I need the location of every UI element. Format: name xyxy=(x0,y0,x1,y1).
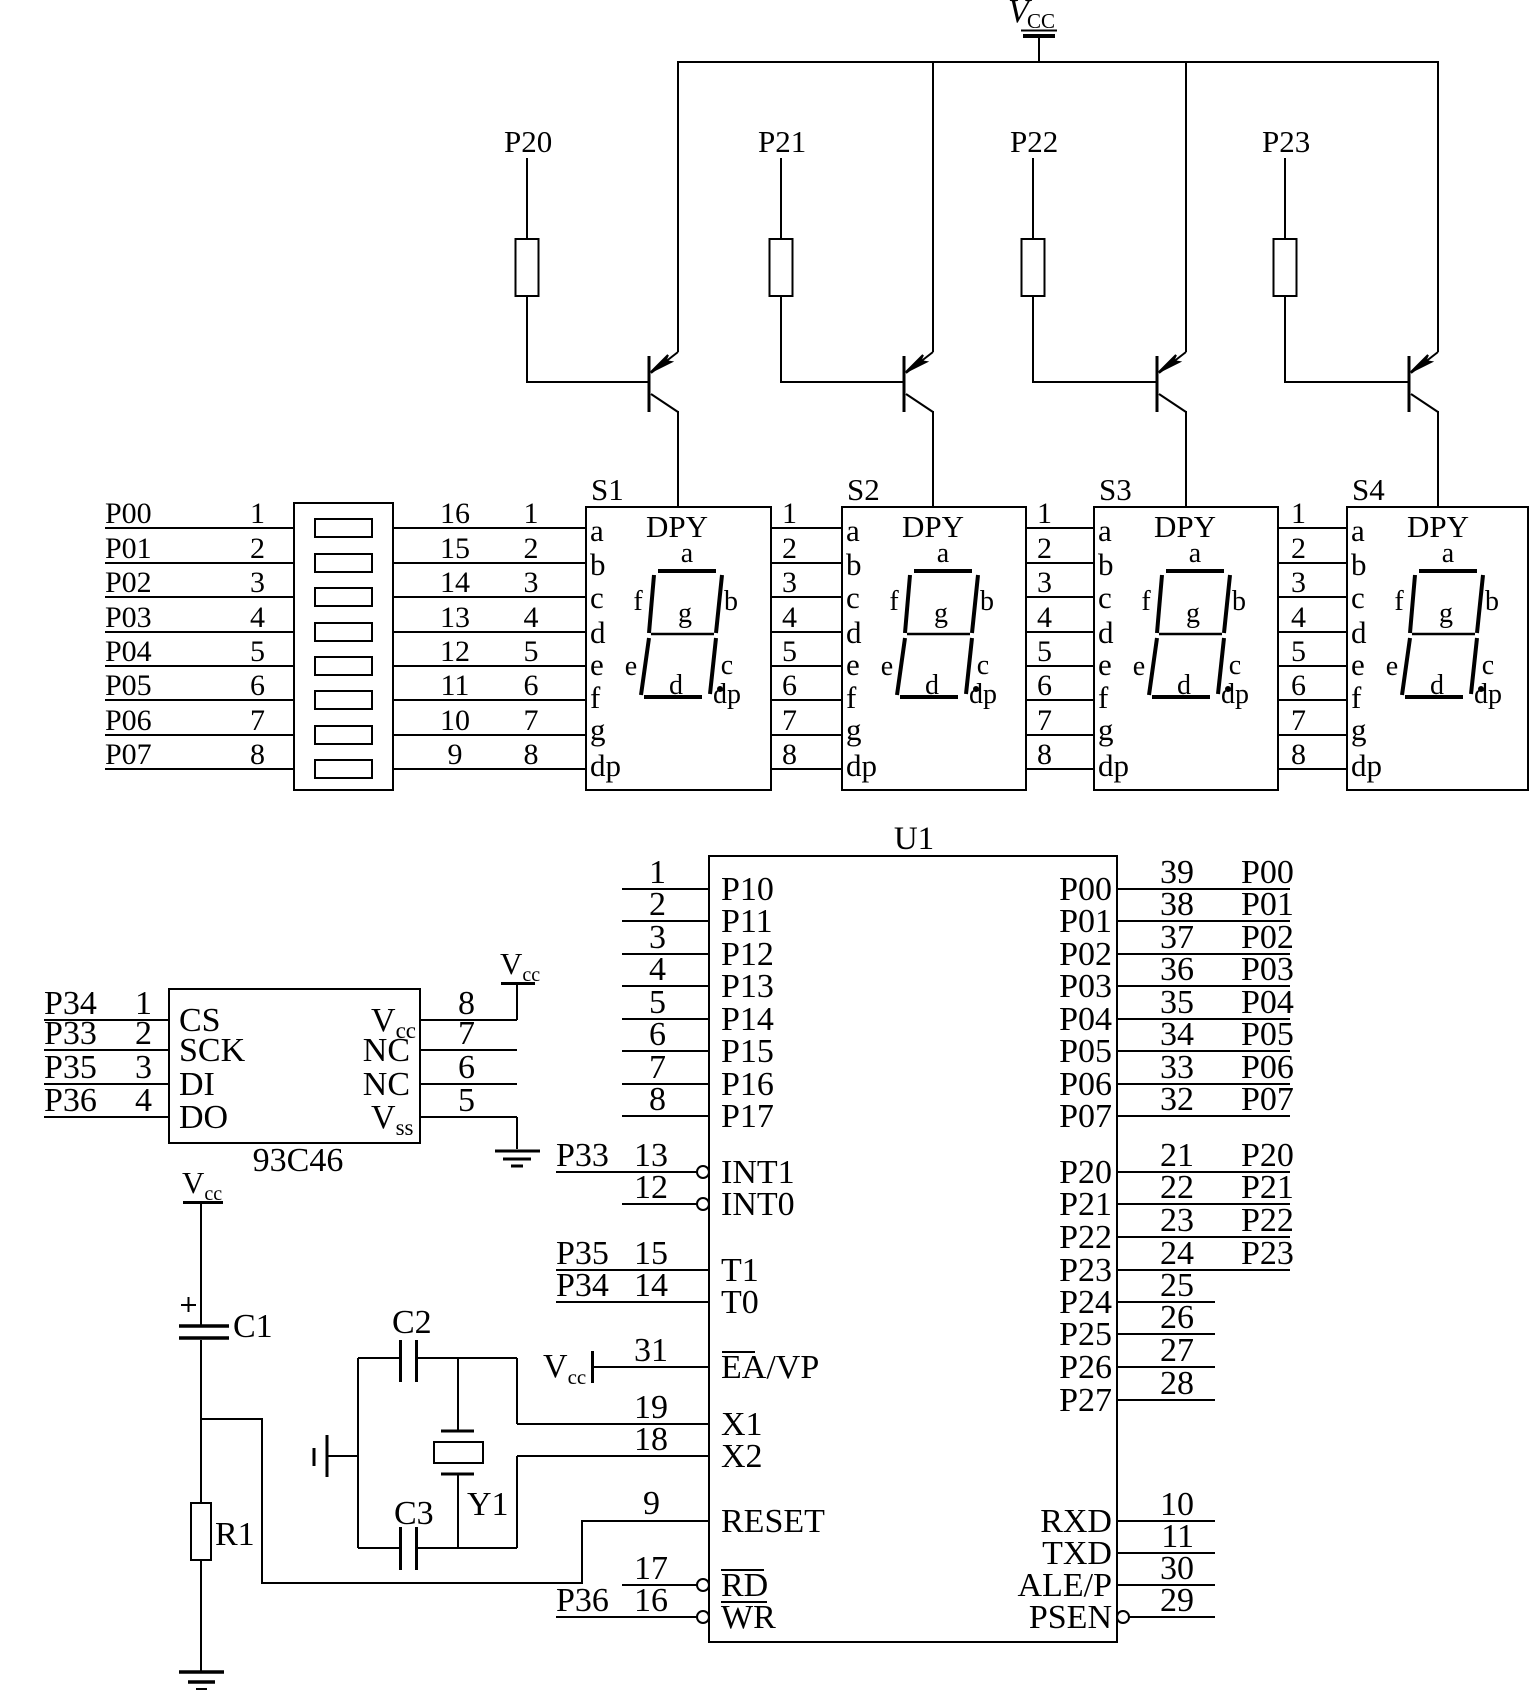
svg-text:DPY: DPY xyxy=(902,509,964,544)
svg-text:8: 8 xyxy=(1037,738,1052,771)
wire P01 to RP1 pin 2 xyxy=(105,562,294,564)
wire Q3 collector to S3 xyxy=(1185,411,1187,508)
svg-text:P22: P22 xyxy=(1059,1219,1112,1256)
svg-text:P25: P25 xyxy=(1059,1316,1112,1353)
svg-text:4: 4 xyxy=(1037,601,1052,634)
U1 pin 28 P27 xyxy=(1059,1365,1215,1419)
wire RP1 pin 9 to S1 pin 8 xyxy=(393,768,586,770)
svg-text:9: 9 xyxy=(448,738,463,771)
wire Q2 collector to S2 xyxy=(932,411,934,508)
svg-text:INT0: INT0 xyxy=(721,1186,795,1223)
svg-text:4: 4 xyxy=(649,951,666,988)
7-seg digit drawing S4 xyxy=(1386,538,1502,710)
svg-text:P07: P07 xyxy=(105,738,152,771)
U1 pin 25 P24 xyxy=(1059,1267,1215,1321)
svg-text:P21: P21 xyxy=(1059,1186,1112,1223)
svg-text:P11: P11 xyxy=(721,903,773,940)
svg-text:4: 4 xyxy=(135,1082,152,1119)
wire P00 to RP1 pin 1 xyxy=(105,527,294,529)
pin numbers 1-8 (S4) xyxy=(1291,497,1306,771)
wire P06 to RP1 pin 7 xyxy=(105,734,294,736)
svg-text:C1: C1 xyxy=(233,1308,273,1345)
resistor RP1 element 5 xyxy=(315,657,372,675)
7-seg digit drawing S3 xyxy=(1133,538,1249,710)
U2 pin 6 NC xyxy=(363,1049,517,1103)
U1 pin 1 P10 xyxy=(622,854,774,908)
svg-text:4: 4 xyxy=(1291,601,1306,634)
svg-text:6: 6 xyxy=(649,1016,666,1053)
svg-text:P01: P01 xyxy=(1059,903,1112,940)
svg-text:5: 5 xyxy=(1037,635,1052,668)
U1 pin 12 INT0 xyxy=(622,1169,795,1223)
svg-text:6: 6 xyxy=(250,669,265,702)
wire Vss to ground xyxy=(516,1117,518,1149)
svg-text:93C46: 93C46 xyxy=(253,1142,344,1179)
wire oscillator left (ground net) xyxy=(357,1358,359,1548)
U1 pin 36 P03 (node P03) xyxy=(1059,951,1294,1005)
svg-text:3: 3 xyxy=(524,566,539,599)
U1 pin 15 T1 (node P35) xyxy=(556,1235,759,1289)
U2 pin 7 NC xyxy=(363,1015,517,1069)
wire RP1 pin 14 to S1 pin 3 xyxy=(393,596,586,598)
wire P04 to RP1 pin 5 xyxy=(105,665,294,667)
svg-text:P33: P33 xyxy=(44,1015,97,1052)
U1 pin 33 P06 (node P06) xyxy=(1059,1049,1294,1103)
svg-text:NC: NC xyxy=(363,1032,410,1069)
svg-text:9: 9 xyxy=(643,1485,660,1522)
svg-text:3: 3 xyxy=(782,566,797,599)
resistor RP1 element 6 xyxy=(315,691,372,709)
U1 pin 13 INT1 (node P33) xyxy=(556,1137,795,1191)
U1 pin 37 P02 (node P02) xyxy=(1059,919,1294,973)
wire C1 to R1 xyxy=(200,1340,202,1503)
svg-text:S1: S1 xyxy=(591,472,624,507)
svg-text:P01: P01 xyxy=(105,532,152,565)
U1 pin 39 P00 (node P00) xyxy=(1059,854,1294,908)
svg-text:P36: P36 xyxy=(44,1082,97,1119)
wire RP1 pin 11 to S1 pin 6 xyxy=(393,699,586,701)
svg-text:P05: P05 xyxy=(1241,1016,1294,1053)
svg-text:T0: T0 xyxy=(721,1284,759,1321)
svg-text:36: 36 xyxy=(1160,951,1194,988)
svg-text:4: 4 xyxy=(250,601,265,634)
svg-text:WR: WR xyxy=(721,1599,776,1636)
svg-text:2: 2 xyxy=(135,1015,152,1052)
capacitor C2 xyxy=(392,1304,432,1382)
svg-text:P22: P22 xyxy=(1241,1202,1294,1239)
svg-text:P03: P03 xyxy=(105,601,152,634)
svg-text:31: 31 xyxy=(634,1332,668,1369)
svg-text:P33: P33 xyxy=(556,1137,609,1174)
svg-text:PSEN: PSEN xyxy=(1029,1599,1112,1636)
svg-text:2: 2 xyxy=(250,532,265,565)
U1 pin 38 P01 (node P01) xyxy=(1059,886,1294,940)
svg-text:22: 22 xyxy=(1160,1169,1194,1206)
U1 pin 21 P20 (node P20) xyxy=(1059,1137,1294,1191)
svg-text:13: 13 xyxy=(440,601,470,634)
U1 pin 32 P07 (node P07) xyxy=(1059,1081,1294,1135)
wire RP1 pin 16 to S1 pin 1 xyxy=(393,527,586,529)
wire segment bus S1 to S2 xyxy=(771,528,842,769)
svg-text:10: 10 xyxy=(440,704,470,737)
svg-text:2: 2 xyxy=(524,532,539,565)
ground (93C46 Vss) xyxy=(495,1151,540,1166)
U1 pin 26 P25 xyxy=(1059,1299,1215,1353)
svg-text:P21: P21 xyxy=(1241,1169,1294,1206)
svg-text:Y1: Y1 xyxy=(467,1486,509,1523)
svg-text:RESET: RESET xyxy=(721,1503,825,1540)
IC U2 93C46 EEPROM xyxy=(169,989,420,1143)
U2 pin 5 Vss xyxy=(371,1082,517,1140)
svg-text:P03: P03 xyxy=(1241,951,1294,988)
svg-text:7: 7 xyxy=(1037,704,1052,737)
svg-text:34: 34 xyxy=(1160,1016,1194,1053)
wire resistor to Q3 base xyxy=(1033,296,1157,382)
U2 pin 1 CS (node P34) xyxy=(44,985,221,1039)
svg-text:P06: P06 xyxy=(105,704,152,737)
resistor RP21 base resistor xyxy=(770,239,793,296)
wire P21 to base resistor xyxy=(780,158,782,239)
U1 pin 27 P26 xyxy=(1059,1332,1215,1386)
svg-text:DPY: DPY xyxy=(1154,509,1216,544)
svg-text:5: 5 xyxy=(1291,635,1306,668)
svg-text:6: 6 xyxy=(782,669,797,702)
wire oscillator bottom (C3 / Y1 / X2 net) xyxy=(358,1456,517,1548)
wire RP1 pin 10 to S1 pin 7 xyxy=(393,734,586,736)
U1 pin 35 P04 (node P04) xyxy=(1059,984,1294,1038)
svg-text:P21: P21 xyxy=(758,124,806,159)
svg-text:P22: P22 xyxy=(1010,124,1058,159)
wire VCC rail xyxy=(677,61,1439,63)
svg-text:5: 5 xyxy=(458,1082,475,1119)
U1 pin 16 WR (node P36) xyxy=(556,1582,776,1636)
wire VCC to Q4 emitter xyxy=(1437,62,1439,352)
U1 pin 29 PSEN xyxy=(1029,1582,1215,1636)
capacitor C3 xyxy=(394,1495,434,1570)
pin letters a-dp S3 xyxy=(1098,513,1129,783)
ground (R1) xyxy=(179,1672,224,1690)
U1 pin 5 P14 xyxy=(622,984,774,1038)
resistor RP1 element 3 xyxy=(315,588,372,606)
resistor RP1 element 2 xyxy=(315,554,372,572)
transistor Q1 (PNP, drives S1) xyxy=(649,352,678,412)
wire RP1 pin 13 to S1 pin 4 xyxy=(393,631,586,633)
resistor R1 xyxy=(191,1503,255,1560)
svg-text:CC: CC xyxy=(1027,9,1055,33)
U1 pin 7 P16 xyxy=(622,1049,774,1103)
svg-text:NC: NC xyxy=(363,1066,410,1103)
svg-text:P34: P34 xyxy=(556,1267,609,1304)
svg-text:P26: P26 xyxy=(1059,1349,1112,1386)
transistor Q3 (PNP, drives S3) xyxy=(1157,352,1186,412)
pin letters a-dp S2 xyxy=(846,513,877,783)
svg-text:1: 1 xyxy=(1037,497,1052,530)
U1 pin 4 P13 xyxy=(622,951,774,1005)
wire P20 to base resistor xyxy=(526,158,528,239)
wire P23 to base resistor xyxy=(1284,158,1286,239)
svg-text:8: 8 xyxy=(782,738,797,771)
power Vcc (reset circuit) xyxy=(182,1165,223,1325)
U1 pin 34 P05 (node P05) xyxy=(1059,1016,1294,1070)
U1 pin 9 RESET xyxy=(582,1485,825,1540)
U2 pin 3 DI (node P35) xyxy=(44,1049,215,1103)
U1 pin 8 P17 xyxy=(622,1081,774,1135)
svg-text:P01: P01 xyxy=(1241,886,1294,923)
svg-text:1: 1 xyxy=(1291,497,1306,530)
IC U1 (8051 MCU) xyxy=(709,856,1117,1642)
svg-text:3: 3 xyxy=(1291,566,1306,599)
svg-text:S2: S2 xyxy=(847,472,880,507)
svg-text:P07: P07 xyxy=(1241,1081,1294,1118)
7-seg digit drawing S1 xyxy=(625,538,741,710)
svg-text:6: 6 xyxy=(458,1049,475,1086)
svg-text:7: 7 xyxy=(782,704,797,737)
svg-text:EA/VP: EA/VP xyxy=(721,1349,819,1386)
svg-text:4: 4 xyxy=(782,601,797,634)
svg-text:32: 32 xyxy=(1160,1081,1194,1118)
wire R1 to ground xyxy=(200,1560,202,1671)
svg-text:R1: R1 xyxy=(215,1516,255,1553)
wire C1/R1 junction to RESET xyxy=(201,1419,709,1583)
svg-text:12: 12 xyxy=(634,1169,668,1206)
wire resistor to Q2 base xyxy=(781,296,904,382)
svg-text:S3: S3 xyxy=(1099,472,1132,507)
resistor network RP1 xyxy=(294,503,393,790)
svg-text:3: 3 xyxy=(1037,566,1052,599)
svg-text:P05: P05 xyxy=(105,669,152,702)
wire segment bus S3 to S4 xyxy=(1278,528,1347,769)
svg-text:P35: P35 xyxy=(44,1049,97,1086)
svg-text:P23: P23 xyxy=(1262,124,1310,159)
U1 pin 23 P22 (node P22) xyxy=(1059,1202,1294,1256)
svg-text:29: 29 xyxy=(1160,1582,1194,1619)
resistor RP1 element 4 xyxy=(315,623,372,641)
ground (oscillator) xyxy=(314,1435,358,1477)
svg-text:15: 15 xyxy=(440,532,470,565)
wire P07 to RP1 pin 8 xyxy=(105,768,294,770)
U1 pin 6 P15 xyxy=(622,1016,774,1070)
power VCC xyxy=(1008,0,1057,62)
U2 pin 4 DO (node P36) xyxy=(44,1082,228,1136)
svg-text:SCK: SCK xyxy=(179,1032,246,1069)
svg-text:C2: C2 xyxy=(392,1304,432,1341)
svg-text:18: 18 xyxy=(634,1421,668,1458)
svg-text:5: 5 xyxy=(524,635,539,668)
U2 pin 2 SCK (node P33) xyxy=(44,1015,246,1069)
svg-text:8: 8 xyxy=(1291,738,1306,771)
pin letters a-dp S1 xyxy=(590,513,621,783)
wire VCC to Q3 emitter xyxy=(1185,62,1187,352)
svg-text:7: 7 xyxy=(524,704,539,737)
U1 pin 18 X2 xyxy=(517,1421,763,1475)
U2 pin 8 Vcc xyxy=(371,985,517,1043)
resistor RP22 base resistor xyxy=(1022,239,1045,296)
wire Q1 collector to S1 xyxy=(677,411,679,508)
svg-text:P15: P15 xyxy=(721,1033,774,1070)
svg-text:P03: P03 xyxy=(1059,968,1112,1005)
U1 pin 17 RD xyxy=(622,1550,768,1604)
wire resistor to Q1 base xyxy=(527,296,649,382)
resistor RP20 base resistor xyxy=(516,239,539,296)
svg-text:P05: P05 xyxy=(1059,1033,1112,1070)
U1 pin 30 ALE/P xyxy=(1018,1550,1215,1604)
svg-text:C3: C3 xyxy=(394,1495,434,1532)
wire P02 to RP1 pin 3 xyxy=(105,596,294,598)
svg-text:2: 2 xyxy=(649,886,666,923)
power Vcc (93C46 pin 8) xyxy=(500,946,540,1020)
svg-text:DI: DI xyxy=(179,1066,215,1103)
svg-text:2: 2 xyxy=(782,532,797,565)
wire VCC to Q2 emitter xyxy=(932,62,934,352)
wire RP1 pin 12 to S1 pin 5 xyxy=(393,665,586,667)
svg-text:4: 4 xyxy=(524,601,539,634)
capacitor C1 (electrolytic, +) xyxy=(179,1297,273,1345)
svg-text:11: 11 xyxy=(441,669,470,702)
svg-text:5: 5 xyxy=(782,635,797,668)
svg-text:P13: P13 xyxy=(721,968,774,1005)
resistor RP1 element 8 xyxy=(315,760,372,778)
svg-text:7: 7 xyxy=(1291,704,1306,737)
svg-text:2: 2 xyxy=(1037,532,1052,565)
wire P03 to RP1 pin 4 xyxy=(105,631,294,633)
svg-text:P36: P36 xyxy=(556,1582,609,1619)
U1 pin 14 T0 (node P34) xyxy=(556,1267,759,1321)
7-seg digit drawing S2 xyxy=(881,538,997,710)
svg-text:1: 1 xyxy=(782,497,797,530)
U1 pin 11 TXD xyxy=(1042,1518,1215,1572)
svg-text:DPY: DPY xyxy=(646,509,708,544)
svg-text:23: 23 xyxy=(1160,1202,1194,1239)
transistor Q4 (PNP, drives S4) xyxy=(1409,352,1438,412)
svg-text:6: 6 xyxy=(1291,669,1306,702)
wire P05 to RP1 pin 6 xyxy=(105,699,294,701)
svg-text:S4: S4 xyxy=(1352,472,1385,507)
svg-text:8: 8 xyxy=(250,738,265,771)
transistor Q2 (PNP, drives S2) xyxy=(904,352,933,412)
resistor RP1 element 1 xyxy=(315,519,372,537)
U1 pin 24 P23 (node P23) xyxy=(1059,1235,1294,1289)
resistor RP23 base resistor xyxy=(1274,239,1297,296)
U1 pin 22 P21 (node P21) xyxy=(1059,1169,1294,1223)
svg-text:7: 7 xyxy=(250,704,265,737)
pin numbers 1-8 (S3) xyxy=(1037,497,1052,771)
resistor RP1 element 7 xyxy=(315,726,372,744)
svg-text:38: 38 xyxy=(1160,886,1194,923)
wire resistor to Q4 base xyxy=(1285,296,1409,382)
wire segment bus S2 to S3 xyxy=(1026,528,1094,769)
svg-text:8: 8 xyxy=(524,738,539,771)
svg-text:X2: X2 xyxy=(721,1438,763,1475)
U1 pin 10 RXD xyxy=(1040,1486,1215,1540)
pin letters a-dp S4 xyxy=(1351,513,1382,783)
svg-text:2: 2 xyxy=(1291,532,1306,565)
svg-text:28: 28 xyxy=(1160,1365,1194,1402)
wire P22 to base resistor xyxy=(1032,158,1034,239)
U1 pin 2 P11 xyxy=(622,886,773,940)
svg-text:5: 5 xyxy=(250,635,265,668)
svg-text:26: 26 xyxy=(1160,1299,1194,1336)
svg-text:16: 16 xyxy=(440,497,470,530)
svg-text:1: 1 xyxy=(250,497,265,530)
svg-text:U1: U1 xyxy=(894,821,934,857)
U1 pin 19 X1 xyxy=(517,1389,763,1443)
svg-text:6: 6 xyxy=(1037,669,1052,702)
power Vcc (EA/VP pull-up) xyxy=(543,1348,593,1389)
wire VCC to Q1 emitter xyxy=(677,62,679,352)
svg-text:12: 12 xyxy=(440,635,470,668)
svg-text:16: 16 xyxy=(634,1582,668,1619)
svg-text:P17: P17 xyxy=(721,1098,774,1135)
wire Q4 collector to S4 xyxy=(1437,411,1439,508)
U1 pin 31 EA/VP xyxy=(592,1332,819,1386)
svg-text:6: 6 xyxy=(524,669,539,702)
svg-text:P23: P23 xyxy=(1241,1235,1294,1272)
svg-text:7: 7 xyxy=(458,1015,475,1052)
svg-text:P27: P27 xyxy=(1059,1382,1112,1419)
wire RP1 pin 15 to S1 pin 2 xyxy=(393,562,586,564)
svg-text:P07: P07 xyxy=(1059,1098,1112,1135)
svg-text:DO: DO xyxy=(179,1099,228,1136)
svg-text:8: 8 xyxy=(649,1081,666,1118)
svg-text:27: 27 xyxy=(1160,1332,1194,1369)
svg-text:P02: P02 xyxy=(105,566,152,599)
svg-text:P20: P20 xyxy=(504,124,552,159)
crystal Y1 xyxy=(434,1358,509,1548)
svg-text:1: 1 xyxy=(524,497,539,530)
svg-text:P00: P00 xyxy=(105,497,152,530)
svg-text:14: 14 xyxy=(634,1267,668,1304)
svg-text:P04: P04 xyxy=(105,635,152,668)
wire oscillator top (C2 / Y1 / X1 net) xyxy=(358,1358,517,1424)
U1 pin 3 P12 xyxy=(622,919,774,973)
svg-text:3: 3 xyxy=(135,1049,152,1086)
svg-text:3: 3 xyxy=(250,566,265,599)
pin numbers 1-8 (S2) xyxy=(782,497,797,771)
svg-text:DPY: DPY xyxy=(1407,509,1469,544)
svg-text:14: 14 xyxy=(440,566,470,599)
